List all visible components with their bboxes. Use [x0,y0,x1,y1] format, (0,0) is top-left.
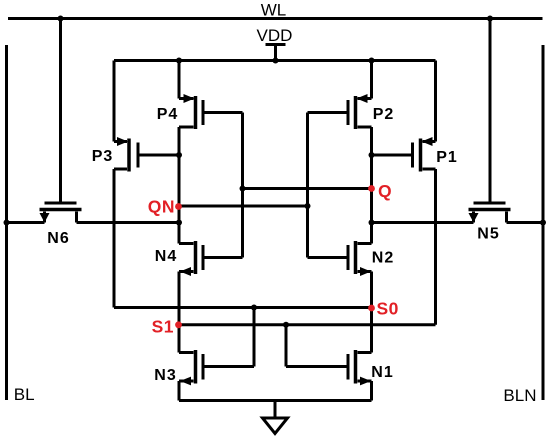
svg-text:Q: Q [378,181,392,201]
power symbol VDD [266,45,286,61]
wire P4 source stub from VDD [178,61,181,99]
transistor N4 [179,241,243,276]
wire ground stub [274,401,277,418]
label N2 [372,250,394,267]
wire WL horizontal line [8,17,543,20]
wire right outer lower (P1 drain to S1 row) [434,169,437,325]
wire right outer upper (VDD to P1 source) [434,61,437,142]
node label QN [148,197,175,217]
node label Q [378,181,392,201]
junction S0 row-N3 gate column [251,305,257,311]
wire S0 to N1 drain [370,308,373,353]
wire S1 to N3 drain [178,325,181,353]
ground symbol [263,418,288,434]
svg-text:P1: P1 [436,149,458,166]
junction access wire-QN column [176,220,182,226]
label N5 [477,226,499,243]
wire QN column [178,127,181,244]
label N4 [155,248,177,265]
wire QN cross row [179,205,308,208]
svg-text:N5: N5 [477,226,499,243]
junction S1 row-N1 gate column [283,322,289,328]
svg-text:VDD: VDD [257,26,293,45]
net label WL [261,1,287,20]
node S0 dot [368,305,375,312]
svg-text:BL: BL [14,385,35,404]
svg-text:S0: S0 [377,299,399,319]
wire N3 source drop [178,381,181,401]
label P2 [373,106,395,123]
junction WL-N5 gate [487,16,493,22]
label P3 [92,148,114,165]
label P1 [436,149,458,166]
wire left outer lower (P3 drain to S0 row) [113,169,116,308]
transistor N3 [179,350,254,385]
junction VDD-P2 [369,58,375,64]
svg-text:N6: N6 [47,230,69,247]
node S1 dot [175,321,182,328]
junction P3 gate-QN column [176,152,182,158]
node Q dot [368,185,375,192]
svg-text:P2: P2 [373,106,395,123]
node QN dot [175,203,182,210]
wire bottom ground rail [179,399,372,402]
junction P1 gate-Q column [369,152,375,158]
net label BL [14,385,35,404]
svg-text:P4: P4 [157,106,179,123]
svg-text:P3: P3 [92,148,114,165]
transistor N6 [40,202,82,223]
junction VDD stub [273,58,279,64]
transistor P3 [114,137,179,172]
wire N2 source to S0 [370,272,373,308]
junction N5-BLN [540,220,546,226]
wire N4 source to S1 [178,272,181,325]
net label VDD [257,26,293,45]
svg-text:QN: QN [148,197,175,217]
svg-text:S1: S1 [152,317,174,337]
junction WL-N6 gate [58,16,64,22]
wire S0 row [114,306,372,309]
transistor P1 [372,137,436,172]
wire N6 to QN [77,221,180,224]
wire P2 source stub from VDD [370,61,373,99]
svg-text:N4: N4 [155,248,177,265]
svg-text:N1: N1 [371,364,393,381]
wire BLN vertical line [542,45,545,400]
wire S1 row [179,323,436,326]
node label S1 [152,317,174,337]
wire right gate column (P2/N2 gates) [306,113,309,258]
wire Q to N5 [372,221,474,224]
label N6 [47,230,69,247]
wire left gate column (P4/N4 gates) [241,113,244,258]
wire N5 to BLN [507,221,544,224]
wire N1 gate column from S1 row [285,325,288,367]
junction VDD-P4 [176,58,182,64]
label N3 [154,367,176,384]
wire Q column [370,127,373,244]
wire BL to N6 [7,221,45,224]
label P4 [157,106,179,123]
transistor N1 [286,350,372,385]
junction BL-access wire [4,220,10,226]
node label S0 [377,299,399,319]
transistor P4 [179,94,243,129]
svg-text:WL: WL [261,1,287,20]
wire VDD rail [114,59,436,62]
wire BL vertical line [5,45,8,400]
junction Q column-access wire [369,220,375,226]
transistor N5 [469,202,511,223]
wire N6 gate from WL [59,19,62,202]
junction QN row-right gate column [305,203,311,209]
svg-text:BLN: BLN [503,386,536,405]
wire Q cross row [243,187,372,190]
label N1 [371,364,393,381]
wire N5 gate from WL [489,19,492,202]
transistor P2 [308,94,372,129]
svg-text:N2: N2 [372,250,394,267]
wire N1 source drop [370,381,373,401]
wire N3 gate column from S0 row [253,308,256,367]
net label BLN [503,386,536,405]
junction Q row-left gate column [240,186,246,192]
svg-text:N3: N3 [154,367,176,384]
wire left outer upper (VDD to P3 source) [113,61,116,142]
transistor N2 [308,241,372,276]
